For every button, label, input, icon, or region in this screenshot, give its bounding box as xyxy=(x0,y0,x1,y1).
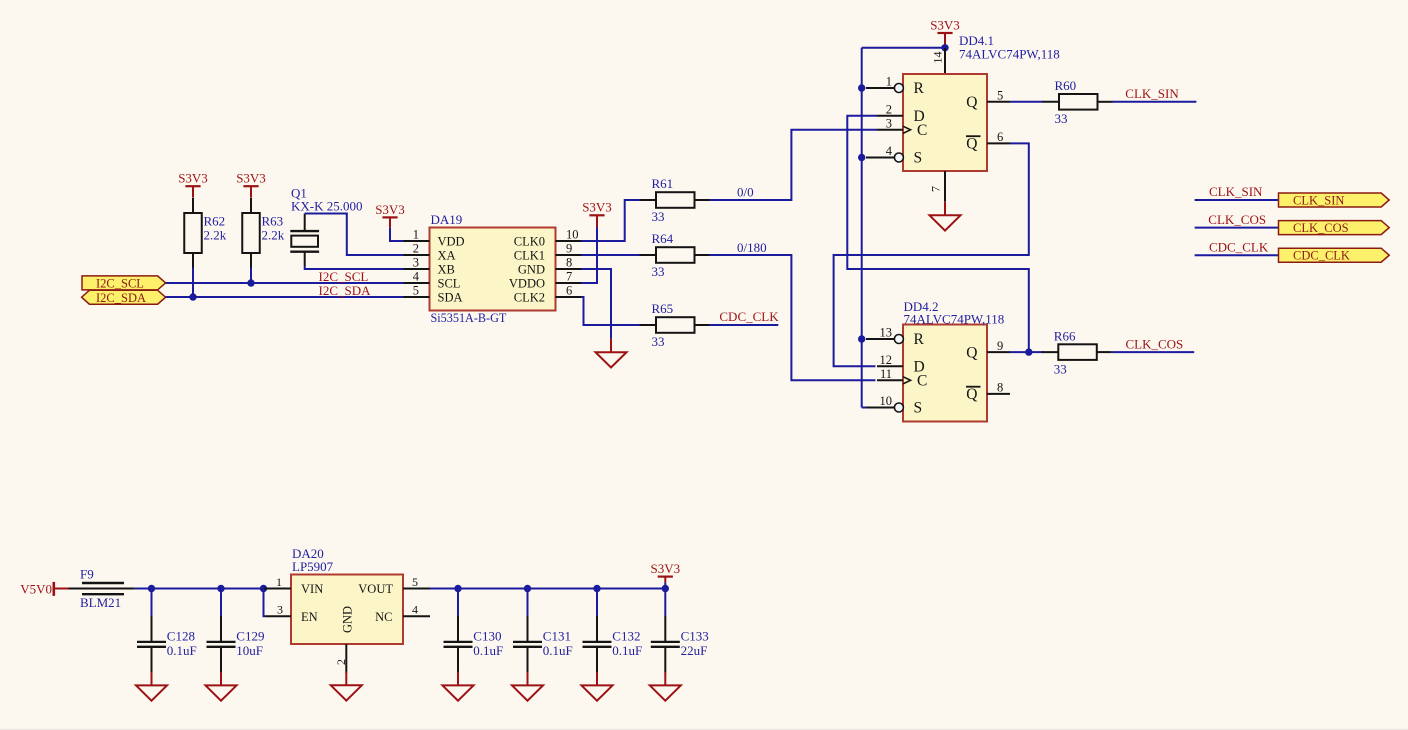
svg-text:NC: NC xyxy=(375,610,392,624)
svg-text:S: S xyxy=(914,150,923,167)
svg-text:LP5907: LP5907 xyxy=(292,559,334,574)
svg-text:Q: Q xyxy=(966,136,977,153)
svg-text:3: 3 xyxy=(886,117,892,131)
svg-text:I2C_SDA: I2C_SDA xyxy=(96,291,146,305)
svg-text:C132: C132 xyxy=(612,629,640,644)
svg-text:0.1uF: 0.1uF xyxy=(543,643,573,658)
DA20 pin 3 (EN) xyxy=(265,603,318,624)
capacitor C130 xyxy=(444,589,504,673)
svg-text:CDC_CLK: CDC_CLK xyxy=(1293,249,1350,263)
svg-text:S3V3: S3V3 xyxy=(930,17,960,32)
svg-text:S3V3: S3V3 xyxy=(650,561,680,576)
resistor R61 xyxy=(640,176,710,224)
ground (under C129) xyxy=(206,672,237,701)
wire net I2C_SCL (port to DA19 pin 4) xyxy=(166,282,404,284)
svg-text:4: 4 xyxy=(412,603,418,617)
IC DD4.2 74ALVC74PW,118 body xyxy=(903,299,1004,422)
DD4.1 pin 3 (C) xyxy=(877,117,927,140)
IC DD4.1 74ALVC74PW,118 body xyxy=(903,33,1060,171)
svg-text:74ALVC74PW,118: 74ALVC74PW,118 xyxy=(959,47,1060,62)
junction (rail / EN riser) xyxy=(260,585,267,592)
DD4.2 pin 9 (Q) xyxy=(966,339,1010,362)
svg-text:1: 1 xyxy=(276,575,282,589)
svg-text:V5V0: V5V0 xyxy=(20,581,52,596)
wire DA19 CLK1 to R64 xyxy=(582,254,640,256)
svg-text:I2C_SCL: I2C_SCL xyxy=(96,277,144,291)
capacitor C128 xyxy=(137,589,197,673)
DA19 pin 9 (CLK1) xyxy=(514,242,582,263)
junction (bus / DD4.2 pin 13) xyxy=(858,335,865,342)
svg-text:5: 5 xyxy=(997,89,1003,103)
svg-text:F9: F9 xyxy=(80,566,94,581)
ground (DA20 pin 2) xyxy=(331,672,362,701)
svg-text:KX-K 25.000: KX-K 25.000 xyxy=(291,199,363,214)
svg-text:4: 4 xyxy=(886,144,893,158)
DD4.1 pin 7 (GND) xyxy=(929,171,946,202)
svg-text:XB: XB xyxy=(438,262,455,276)
svg-text:R65: R65 xyxy=(652,301,674,316)
junction (bus / DD4.1 pin 4) xyxy=(858,154,865,161)
ground (under C130) xyxy=(443,672,474,701)
svg-text:C: C xyxy=(917,122,927,139)
resistor R65 xyxy=(640,301,710,349)
net label CLK_COS (at port) xyxy=(1208,212,1266,227)
resistor R66 xyxy=(1042,328,1112,376)
svg-text:14: 14 xyxy=(931,52,945,64)
svg-text:I2C_SCL: I2C_SCL xyxy=(319,269,369,284)
svg-text:C128: C128 xyxy=(167,629,195,644)
IC DA20 LP5907 body xyxy=(291,546,403,644)
svg-text:R61: R61 xyxy=(652,176,674,191)
port CLK_SIN xyxy=(1279,193,1390,207)
svg-text:R66: R66 xyxy=(1054,328,1076,343)
power V5V0 xyxy=(20,581,68,596)
junction (DD4.2 Q / feedback) xyxy=(1025,348,1032,355)
wire DA19 GND to ground xyxy=(582,269,612,339)
svg-text:2.2k: 2.2k xyxy=(262,228,285,243)
net label I2C_SDA xyxy=(319,283,372,298)
svg-text:4: 4 xyxy=(413,270,420,284)
svg-text:9: 9 xyxy=(997,339,1003,353)
svg-text:C: C xyxy=(917,373,927,390)
wire net CDC_CLK (to port) xyxy=(1195,254,1279,256)
svg-text:GND: GND xyxy=(341,606,355,633)
svg-text:CLK2: CLK2 xyxy=(514,290,545,304)
svg-text:1: 1 xyxy=(413,228,419,242)
junction (rail / C130) xyxy=(454,585,461,592)
svg-text:C131: C131 xyxy=(543,629,571,644)
DA19 pin 3 (XB) xyxy=(404,256,455,277)
svg-text:0.1uF: 0.1uF xyxy=(473,643,503,658)
svg-text:8: 8 xyxy=(566,256,572,270)
port CLK_COS xyxy=(1279,221,1390,235)
svg-text:2: 2 xyxy=(413,242,419,256)
svg-text:10uF: 10uF xyxy=(236,643,263,658)
DA19 pin 8 (GND) xyxy=(518,256,582,277)
svg-text:CLK_SIN: CLK_SIN xyxy=(1209,184,1263,199)
svg-text:0/0: 0/0 xyxy=(737,185,754,200)
port CDC_CLK xyxy=(1279,248,1390,262)
power S3V3 (above R63) xyxy=(236,171,266,198)
capacitor C131 xyxy=(513,589,573,673)
junction (rail / C132) xyxy=(593,585,600,592)
wire R63 to I2C_SCL xyxy=(250,268,252,284)
svg-text:Q: Q xyxy=(966,386,977,403)
svg-text:R63: R63 xyxy=(262,214,284,229)
svg-text:R60: R60 xyxy=(1055,78,1077,93)
svg-text:CLK_COS: CLK_COS xyxy=(1208,212,1266,227)
power S3V3 (at DA19 VDDO) xyxy=(582,200,612,228)
net label CDC_CLK (at port) xyxy=(1209,239,1269,254)
DD4.1 pin 14 (VCC) xyxy=(931,48,946,74)
capacitor C132 xyxy=(583,589,643,673)
svg-text:S: S xyxy=(914,400,923,417)
svg-text:9: 9 xyxy=(566,242,572,256)
net label 0/180 xyxy=(737,240,767,255)
DA19 pin 7 (VDDO) xyxy=(509,270,582,291)
svg-text:C129: C129 xyxy=(236,629,264,644)
junction (R63 / I2C_SCL) xyxy=(247,279,254,286)
svg-text:BLM21: BLM21 xyxy=(80,595,121,610)
wire net I2C_SDA (port to DA19 pin 5) xyxy=(166,296,404,298)
svg-text:CLK0: CLK0 xyxy=(514,234,545,248)
svg-text:0.1uF: 0.1uF xyxy=(612,643,642,658)
power S3V3 (at DA19 VDD) xyxy=(375,202,405,228)
svg-text:11: 11 xyxy=(880,367,892,381)
wire S3V3 to DA19 pin 1 xyxy=(390,228,404,241)
wire R62 to I2C_SDA xyxy=(192,268,194,298)
DD4.1 pin 2 (D) xyxy=(877,102,925,125)
crystal Q1 KX-K 25.000 xyxy=(290,186,362,266)
wire S3V3 to DA19 pin 7 VDDO xyxy=(582,228,598,284)
junction (R62 / I2C_SDA) xyxy=(189,293,196,300)
net label 0/0 xyxy=(737,185,754,200)
wire DD4.2 Q to R66 xyxy=(1029,351,1043,353)
svg-text:SDA: SDA xyxy=(438,290,463,304)
resistor R62 xyxy=(184,198,227,268)
ground (under C128) xyxy=(136,672,167,701)
capacitor C129 xyxy=(207,589,265,673)
svg-text:CDC_CLK: CDC_CLK xyxy=(1209,239,1269,254)
ground (DD4.1 pin 7) xyxy=(930,202,961,231)
wire net CLK_COS (to port) xyxy=(1195,227,1279,229)
wire rail to DA20 EN xyxy=(264,589,266,617)
svg-text:SCL: SCL xyxy=(438,276,461,290)
svg-text:R: R xyxy=(914,80,925,97)
svg-text:VDDO: VDDO xyxy=(509,276,545,290)
power S3V3 (above DD4.1) xyxy=(930,17,960,33)
svg-text:S3V3: S3V3 xyxy=(178,171,208,186)
svg-text:R: R xyxy=(914,331,925,348)
DD4.1 pin 4 (S) xyxy=(866,144,922,167)
junction (rail / C133 / S3V3) xyxy=(662,585,669,592)
resistor R63 xyxy=(242,198,285,268)
DD4.2 pin 12 (D) xyxy=(877,353,925,376)
wire S3V3 rail (VOUT to caps) xyxy=(430,588,665,590)
svg-text:33: 33 xyxy=(1054,361,1067,376)
junction (bus / DD4.1 pin 1) xyxy=(858,84,865,91)
svg-text:6: 6 xyxy=(566,284,572,298)
svg-text:Si5351A-B-GT: Si5351A-B-GT xyxy=(431,311,507,325)
svg-text:I2C_SDA: I2C_SDA xyxy=(319,283,372,298)
svg-text:33: 33 xyxy=(652,264,665,279)
svg-text:22uF: 22uF xyxy=(681,643,708,658)
ground (DA19 pin 8) xyxy=(596,339,627,368)
DA19 pin 2 (XA) xyxy=(404,242,456,263)
svg-text:33: 33 xyxy=(652,334,665,349)
wire net CLK_SIN (to port) xyxy=(1195,199,1279,201)
svg-text:3: 3 xyxy=(413,256,419,270)
junction (rail / C131) xyxy=(524,585,531,592)
svg-text:EN: EN xyxy=(301,610,318,624)
net label CLK_SIN (at port) xyxy=(1209,184,1263,199)
DA19 pin 10 (CLK0) xyxy=(514,228,582,249)
svg-text:Q: Q xyxy=(966,94,977,111)
power S3V3 (above R62) xyxy=(178,171,208,198)
svg-text:XA: XA xyxy=(438,248,456,262)
DD4.2 pin 10 (S) xyxy=(866,394,922,417)
wire DD4.2 Q to DD4.1 D (pin 9 to pin 2) xyxy=(847,116,1029,352)
svg-text:10: 10 xyxy=(880,394,893,408)
DA19 pin 4 (SCL) xyxy=(404,270,461,291)
svg-text:C133: C133 xyxy=(681,629,709,644)
svg-text:3: 3 xyxy=(277,603,283,617)
svg-text:5: 5 xyxy=(412,575,418,589)
DA20 pin 1 (VIN) xyxy=(264,575,323,596)
net label CLK_SIN xyxy=(1125,86,1179,101)
DA19 pin 1 (VDD) xyxy=(404,228,465,249)
svg-text:12: 12 xyxy=(880,353,893,367)
DA20 pin 2 (GND) xyxy=(334,606,355,673)
svg-text:0.1uF: 0.1uF xyxy=(167,643,197,658)
wire bus to DD4.2 pin 10 xyxy=(862,407,866,409)
wire net CLK_SIN (R60 output) xyxy=(1113,101,1197,103)
svg-text:Q: Q xyxy=(966,344,977,361)
wire DA19 CLK2 to R65 xyxy=(582,297,640,325)
svg-text:VOUT: VOUT xyxy=(358,582,393,596)
wire net CLK_COS (R66 output) xyxy=(1112,351,1194,353)
svg-text:1: 1 xyxy=(886,75,892,89)
svg-text:DA19: DA19 xyxy=(431,212,463,227)
capacitor C133 xyxy=(651,589,709,673)
wire DD4.1 Q to R60 xyxy=(1010,101,1043,103)
DD4.1 pin 5 (Q) xyxy=(966,89,1010,112)
junction (S3V3 / pin 14 / R-S bus) xyxy=(941,44,948,51)
svg-text:7: 7 xyxy=(929,186,943,192)
svg-text:GND: GND xyxy=(518,262,545,276)
net label CLK_COS xyxy=(1126,336,1184,351)
svg-text:8: 8 xyxy=(997,381,1003,395)
svg-text:S3V3: S3V3 xyxy=(582,200,612,215)
wire DD4.1 Q-bar to DD4.2 D (pin 6 to pin 12) xyxy=(834,143,1029,366)
DD4.1 pin 1 (R) xyxy=(866,75,925,98)
net label CDC_CLK xyxy=(719,309,779,324)
svg-text:R62: R62 xyxy=(204,214,226,229)
svg-text:2: 2 xyxy=(334,659,348,665)
wire net 0/0 (R61 to DD4.1 pin 3 C) xyxy=(710,130,878,200)
power S3V3 (output rail) xyxy=(650,561,680,583)
wire V5V0 rail (bead to DA20 VIN) xyxy=(135,588,264,590)
resistor R64 xyxy=(640,231,710,279)
svg-text:5: 5 xyxy=(413,284,419,298)
wire S3V3 node to R-S bus xyxy=(862,47,945,49)
net label I2C_SCL xyxy=(319,269,369,284)
svg-text:33: 33 xyxy=(652,209,665,224)
wire crystal top to DA19 XA xyxy=(305,214,404,256)
svg-text:R64: R64 xyxy=(652,231,674,246)
svg-text:S3V3: S3V3 xyxy=(236,171,266,186)
ferrite bead F9 BLM21 xyxy=(69,566,135,609)
svg-text:74ALVC74PW,118: 74ALVC74PW,118 xyxy=(904,312,1005,327)
wire crystal bottom to DA19 XB xyxy=(305,266,404,269)
wire net CDC_CLK (R65 output) xyxy=(710,324,779,326)
svg-text:CLK_COS: CLK_COS xyxy=(1126,336,1184,351)
svg-text:S3V3: S3V3 xyxy=(375,202,405,217)
wire DA19 CLK0 to R61 xyxy=(582,200,640,241)
IC DA19 Si5351A-B-GT body xyxy=(430,212,556,325)
DD4.2 pin 13 (R) xyxy=(866,326,925,349)
ground (under C131) xyxy=(512,672,543,701)
DA19 pin 6 (CLK2) xyxy=(514,284,582,305)
junction (rail / C128) xyxy=(148,585,155,592)
svg-text:6: 6 xyxy=(997,130,1003,144)
svg-text:2: 2 xyxy=(886,102,892,116)
svg-text:10: 10 xyxy=(566,228,579,242)
wire DD4.2 pin 9 to junction xyxy=(1010,351,1029,353)
svg-text:CLK_COS: CLK_COS xyxy=(1293,221,1349,235)
svg-text:C130: C130 xyxy=(473,629,501,644)
wire S3V3 stub to rail xyxy=(664,583,666,589)
wire R-S pull-up bus (vertical) xyxy=(861,48,863,408)
svg-text:VDD: VDD xyxy=(438,234,465,248)
wire S3V3 to pin 14 node xyxy=(944,33,946,48)
svg-text:33: 33 xyxy=(1055,111,1068,126)
svg-text:CLK1: CLK1 xyxy=(514,248,545,262)
ground (under C132) xyxy=(582,672,613,701)
svg-text:CDC_CLK: CDC_CLK xyxy=(719,309,779,324)
DA20 pin 4 (NC) xyxy=(375,603,430,624)
svg-text:13: 13 xyxy=(880,326,893,340)
svg-text:CLK_SIN: CLK_SIN xyxy=(1293,193,1344,207)
DA20 pin 5 (VOUT) xyxy=(358,575,430,596)
svg-text:7: 7 xyxy=(566,270,572,284)
resistor R60 xyxy=(1043,78,1113,126)
DA19 pin 5 (SDA) xyxy=(404,284,463,305)
svg-text:VIN: VIN xyxy=(301,582,323,596)
port I2C_SCL xyxy=(82,276,166,291)
bottom edge line xyxy=(0,729,1408,730)
svg-text:CLK_SIN: CLK_SIN xyxy=(1125,86,1179,101)
svg-text:0/180: 0/180 xyxy=(737,240,767,255)
DD4.2 pin 8 (Q-bar) xyxy=(966,381,1010,404)
ground (under C133) xyxy=(650,672,681,701)
junction (rail / C129) xyxy=(217,585,224,592)
svg-text:2.2k: 2.2k xyxy=(204,228,227,243)
DD4.1 pin 6 (Q-bar) xyxy=(966,130,1010,153)
wire net 0/180 (R64 to DD4.2 pin 11 C) xyxy=(710,255,876,380)
port I2C_SDA xyxy=(82,290,166,305)
DD4.2 pin 11 (C) xyxy=(877,367,927,390)
